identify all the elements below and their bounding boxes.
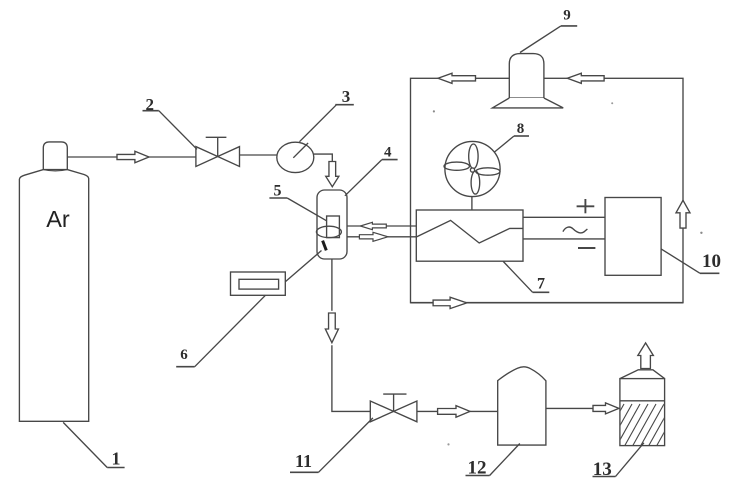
- cooling loop box: [411, 78, 684, 302]
- valve 2: [196, 147, 218, 167]
- wire cylinder-valve: [67, 156, 196, 158]
- pipe supply: [343, 236, 417, 238]
- speck b: [611, 102, 613, 104]
- label 7 leader: [503, 261, 532, 292]
- svg-text:1: 1: [112, 449, 121, 469]
- label 4 leader: [345, 160, 382, 196]
- label 9 underline: [561, 25, 577, 27]
- label 11 leader: [319, 418, 373, 472]
- valve 11: [370, 401, 393, 422]
- label 13 underline: [593, 476, 616, 478]
- svg-text:12: 12: [468, 458, 487, 479]
- pressure gauge 3: [277, 142, 314, 172]
- vessel 13 hatch fill: [592, 404, 688, 447]
- blower 9: [509, 54, 544, 98]
- svg-text:4: 4: [384, 145, 392, 161]
- coil ellipse: [316, 226, 341, 237]
- svg-text:10: 10: [702, 251, 721, 272]
- label 11 underline: [290, 471, 319, 473]
- flow arrow A8: [438, 73, 476, 83]
- gas cylinder 1 body: [19, 170, 88, 422]
- flow arrow A5: [325, 313, 338, 343]
- pipe valve11-vessel12: [417, 410, 498, 412]
- label 10 underline: [700, 272, 719, 274]
- speck a: [433, 110, 435, 112]
- label 12 leader: [490, 444, 520, 476]
- label 5 underline: [269, 197, 287, 199]
- vent arrow up: [638, 343, 654, 369]
- flow arrow A9: [567, 73, 604, 83]
- label 2 leader: [159, 111, 197, 150]
- svg-text:2: 2: [145, 95, 154, 114]
- pipe return: [346, 225, 417, 227]
- vessel 13 body: [620, 379, 665, 446]
- vessel 4: [317, 190, 347, 259]
- svg-text:3: 3: [342, 87, 351, 106]
- label 3 leader: [300, 105, 337, 142]
- vessel 12: [498, 367, 546, 445]
- svg-text:8: 8: [517, 121, 525, 137]
- loop bottom line: [411, 302, 684, 304]
- power supply 10: [605, 198, 661, 276]
- label 12 underline: [466, 475, 490, 477]
- ac tilde: [563, 227, 588, 233]
- label 10 leader: [661, 249, 700, 273]
- flow arrow A3: [360, 222, 386, 229]
- label 13 leader: [616, 443, 644, 477]
- flow arrow A7: [593, 403, 619, 414]
- label 7 underline: [533, 291, 550, 293]
- label 8 underline: [514, 135, 529, 137]
- fan 8: [471, 197, 473, 210]
- label 1 leader: [63, 422, 107, 467]
- flow arrow A10: [676, 200, 690, 228]
- label 1 underline: [107, 467, 124, 469]
- speck c: [700, 232, 702, 234]
- svg-text:9: 9: [563, 7, 571, 23]
- wire hx-ps bottom: [523, 238, 605, 240]
- pipe to valve 11: [332, 345, 370, 411]
- flow arrow A1: [117, 151, 149, 163]
- pipe vessel12-vessel13: [546, 407, 606, 409]
- label 6 underline: [176, 366, 195, 368]
- label 8 leader: [495, 136, 515, 152]
- plus sign: [577, 205, 595, 207]
- flow arrow A4: [359, 232, 388, 241]
- wire hx-ps top: [523, 216, 605, 218]
- display 6 sensor lead: [285, 251, 321, 282]
- svg-text:13: 13: [593, 459, 612, 480]
- pipe down from vessel4: [331, 259, 333, 311]
- wire valve-gauge: [240, 154, 277, 156]
- heat exchanger 7: [416, 210, 523, 261]
- label 5 leader: [287, 198, 326, 221]
- minus sign: [578, 247, 595, 249]
- temperature display 6: [231, 272, 286, 295]
- thermocouple tip: [323, 241, 327, 251]
- flow arrow A2: [326, 162, 339, 187]
- svg-text:11: 11: [295, 451, 312, 471]
- svg-text:5: 5: [274, 183, 282, 200]
- vessel 13 divider: [620, 400, 665, 402]
- svg-text:Ar: Ar: [46, 206, 70, 232]
- speck d: [447, 443, 449, 445]
- wire gauge-vessel4: [314, 154, 333, 161]
- label 6 leader: [195, 295, 266, 366]
- label 9 leader: [520, 26, 561, 53]
- label 4 underline: [382, 159, 398, 161]
- svg-text:6: 6: [180, 347, 188, 363]
- svg-text:7: 7: [537, 276, 545, 293]
- flow arrow A6: [438, 406, 470, 418]
- label 3 underline: [335, 104, 354, 106]
- sample tube 5: [327, 216, 340, 238]
- label 2 underline: [143, 110, 159, 112]
- flow arrow A11: [433, 297, 467, 308]
